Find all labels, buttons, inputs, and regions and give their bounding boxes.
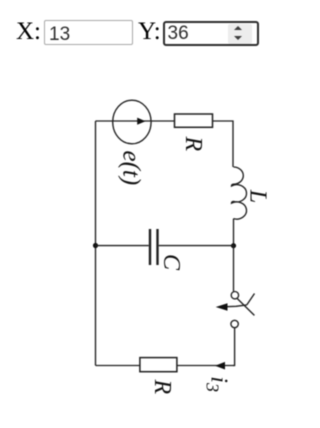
- switch arrow shaft: [227, 305, 247, 307]
- input X value 13: [44, 20, 133, 45]
- svg-text:R: R: [149, 379, 175, 395]
- source e(t) circle: [113, 100, 151, 144]
- input Y value 36 (number spinner, focused): [163, 21, 259, 46]
- switch upper contact: [231, 292, 238, 299]
- resistor R top: [175, 114, 213, 127]
- label Y: [138, 19, 161, 44]
- wire inductor to node: [233, 219, 235, 246]
- node left (junction dot): [93, 243, 98, 248]
- resistor R bottom: [140, 358, 177, 372]
- capacitor C plates: [149, 229, 151, 265]
- wire node to switch: [233, 246, 235, 292]
- svg-text:i3: i3: [203, 376, 232, 392]
- wire switch to corner: [233, 328, 235, 366]
- switch blade fletch upper: [247, 294, 255, 305]
- switch blade fletch lower: [237, 299, 254, 316]
- wire top-right: [213, 121, 234, 167]
- wire top-left horizontal: [96, 120, 175, 122]
- wire left vertical: [95, 121, 97, 366]
- svg-text:e(t): e(t): [118, 151, 145, 186]
- arrow i3: [215, 362, 225, 370]
- wire bottom right with i3 arrow: [177, 365, 235, 367]
- svg-text:C: C: [158, 254, 184, 271]
- switch arrowhead: [216, 303, 228, 311]
- label X: [16, 19, 41, 44]
- node right (junction dot): [231, 243, 236, 248]
- switch lower contact: [231, 320, 238, 327]
- source arrow: [137, 118, 145, 125]
- svg-text:L: L: [245, 189, 271, 203]
- wire middle left: [96, 245, 149, 247]
- wire middle right: [159, 245, 234, 247]
- wire bottom left: [96, 365, 140, 367]
- inductor L coil: [231, 167, 246, 219]
- svg-text:R: R: [180, 136, 206, 152]
